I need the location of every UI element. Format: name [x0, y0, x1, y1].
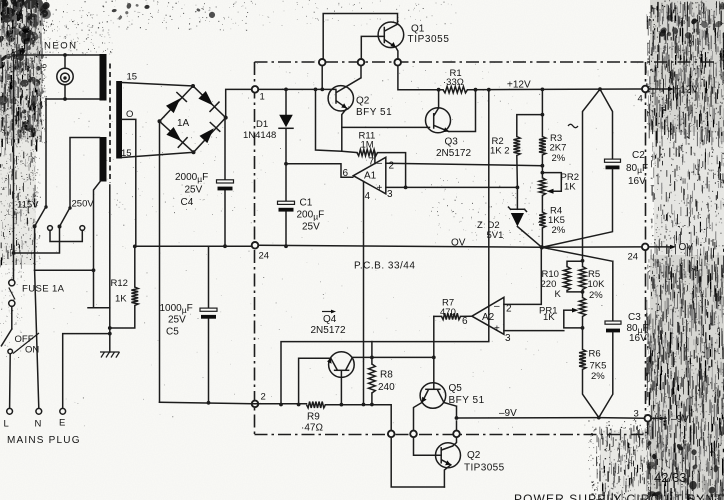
capacitor C5 1000uF — [208, 246, 210, 402]
terminal 24 right — [642, 244, 649, 251]
wire selector contacts U link — [50, 230, 82, 241]
label Q4 arrow — [322, 311, 333, 313]
svg-text:E: E — [59, 418, 65, 429]
svg-text:FUSE 1A: FUSE 1A — [22, 284, 65, 295]
wire bridge positive output — [226, 89, 252, 117]
svg-text:115V: 115V — [17, 200, 39, 211]
svg-text:Q2: Q2 — [467, 450, 481, 461]
svg-text:C4: C4 — [181, 197, 194, 208]
bridge diode top-left — [166, 98, 180, 113]
terminal 1 — [252, 86, 259, 93]
svg-text:R9: R9 — [307, 412, 320, 423]
wire A1 output to C1 node — [286, 164, 353, 178]
svg-text:Q5: Q5 — [449, 383, 463, 394]
switch slash stroke — [13, 333, 39, 354]
transistor Q3 2N5172 — [426, 108, 451, 133]
svg-text:Q3: Q3 — [445, 137, 459, 148]
unregulated bus from terminal 1 — [258, 88, 335, 90]
svg-text:1000µF: 1000µF — [160, 303, 193, 315]
wire collector pin stub — [456, 421, 458, 431]
svg-text:240: 240 — [378, 382, 395, 393]
wire negative rail to terminal 2 — [160, 402, 253, 404]
capacitor C1 200uF — [285, 164, 287, 246]
scan noise right band — [588, 0, 724, 500]
wire R6 bottom funnel — [583, 369, 599, 417]
wire neon top — [64, 55, 66, 68]
svg-text:2%: 2% — [552, 153, 566, 164]
op-amp A1 — [353, 157, 386, 194]
wire R4 bottom to 0V junction — [541, 228, 543, 247]
wire neon bottom — [64, 85, 66, 99]
resistor R2 1K2 — [513, 137, 520, 156]
svg-text:7: 7 — [369, 157, 375, 168]
svg-text:O: O — [126, 109, 133, 120]
svg-text:–9V: –9V — [671, 414, 689, 425]
svg-text:1: 1 — [260, 92, 265, 103]
svg-text:TIP3055: TIP3055 — [464, 463, 505, 474]
resistor R8 240 — [371, 342, 373, 364]
resistor R7 470 — [442, 313, 461, 319]
svg-text:–: – — [494, 301, 500, 312]
svg-text:BFY 51: BFY 51 — [356, 107, 392, 118]
svg-text:1A: 1A — [177, 118, 190, 129]
svg-text:K: K — [555, 289, 562, 300]
terminal Q2b collector pin — [453, 431, 460, 438]
wire A1 pin2 to R2 bottom — [386, 163, 543, 166]
terminal 2 — [252, 401, 259, 408]
svg-text:24: 24 — [259, 251, 270, 262]
svg-text:R12: R12 — [111, 278, 128, 289]
wire fuse to on-off switch — [11, 306, 13, 329]
squiggle artifact — [568, 124, 578, 128]
svg-text:1K: 1K — [564, 182, 576, 193]
transformer primary bottom to junction — [94, 181, 101, 270]
wire A1 pin7 stub — [374, 153, 376, 164]
svg-text:10K: 10K — [588, 279, 606, 290]
terminal Q2b emitter pin — [388, 431, 395, 438]
wire 115V contact to N junction — [34, 226, 36, 270]
svg-text:C5: C5 — [166, 327, 179, 338]
svg-text:24: 24 — [628, 252, 639, 263]
svg-text:15: 15 — [127, 72, 138, 83]
svg-text:4: 4 — [365, 191, 371, 202]
wire Q1 emitter to R1 — [398, 66, 443, 90]
terminal 3 — [645, 415, 652, 422]
svg-text:OV: OV — [451, 238, 466, 249]
terminal Q1 base pin — [358, 59, 365, 66]
terminal N — [36, 408, 42, 414]
svg-text:2%: 2% — [552, 225, 566, 236]
svg-text:+12V: +12V — [507, 80, 531, 91]
svg-text:16V: 16V — [629, 333, 647, 344]
switch OFF/ON — [1, 329, 11, 346]
svg-text:–: – — [377, 158, 383, 169]
diode D1 1N4148 — [285, 89, 287, 163]
preset PR2 1K — [539, 178, 545, 196]
capacitor C4 2000uF — [224, 118, 226, 247]
svg-text:NEON: NEON — [44, 41, 77, 52]
svg-text:25V: 25V — [185, 185, 203, 196]
wire 250V contact to L line — [14, 227, 60, 254]
resistor R12 1K — [131, 287, 138, 306]
-9V rail — [457, 417, 645, 420]
svg-text:2000µF: 2000µF — [175, 172, 208, 184]
0V rail — [136, 245, 642, 247]
svg-text:L: L — [4, 419, 9, 430]
wire L line left vertical — [13, 55, 15, 280]
svg-text:6: 6 — [343, 168, 349, 179]
wire A2 pin2 to 0V junction — [504, 249, 541, 305]
terminal Q1 emitter pin — [394, 59, 401, 66]
svg-text:+12V: +12V — [675, 85, 699, 96]
wire R7/Q5 base vertical — [433, 316, 435, 389]
svg-text:BFY 51: BFY 51 — [449, 395, 485, 406]
svg-text:1N4148: 1N4148 — [243, 130, 276, 141]
capacitor C3 80uF — [542, 247, 613, 320]
transistor Q2 BFY51 — [328, 86, 353, 111]
PCB boundary chain line left — [254, 62, 256, 435]
resistor R9 .47 ohm — [307, 402, 326, 408]
wire secondary top tap to bridge — [122, 83, 193, 87]
svg-text:Q2: Q2 — [356, 96, 370, 107]
wire N down to plug — [35, 270, 39, 408]
wire N junction horizontal — [35, 269, 94, 271]
scan noise left band — [0, 0, 456, 359]
svg-text:1M: 1M — [361, 140, 374, 151]
wire bus tap down to R11 — [316, 89, 358, 152]
neon lamp — [57, 68, 73, 84]
switch arm 250V — [60, 208, 71, 227]
svg-text:C3: C3 — [628, 312, 641, 323]
transformer core earth wire — [109, 185, 111, 352]
wire primary junction down/right — [88, 270, 110, 307]
wire +12V down feed to lower section — [583, 89, 601, 261]
bridge rectifier 1A diamond — [160, 86, 226, 152]
svg-text:+: + — [377, 183, 383, 194]
svg-text:MAINS PLUG: MAINS PLUG — [7, 435, 81, 446]
resistor R6 7K5 — [579, 349, 586, 369]
wire terminal to bus — [321, 66, 323, 90]
terminal 24 left — [252, 242, 259, 249]
transformer T1 primary winding lower bar — [100, 137, 107, 182]
capacitor C2 80uF — [605, 159, 621, 162]
svg-text:2: 2 — [261, 392, 266, 403]
wire +12V long feed through A2 — [281, 90, 489, 405]
svg-text:POWER SUPPLY CIRCUIT SYNTHI A: POWER SUPPLY CIRCUIT SYNTHI A — [514, 492, 724, 500]
resistor R4 1K5 — [541, 196, 543, 213]
OV output arrow — [649, 246, 673, 248]
svg-text:·47Ω: ·47Ω — [301, 423, 323, 434]
wire R3 bottom node — [541, 155, 543, 178]
wire A1 pin4 down to negative rail — [363, 182, 365, 405]
wire secondary bottom tap to bridge — [122, 152, 194, 157]
terminal L — [7, 408, 13, 414]
svg-text:25V: 25V — [168, 315, 186, 326]
svg-text:Q1: Q1 — [411, 24, 425, 35]
svg-text:C2: C2 — [632, 150, 645, 161]
svg-text:1K 2: 1K 2 — [490, 146, 510, 157]
svg-text:7K5: 7K5 — [590, 361, 607, 372]
PR1 wiper — [564, 309, 572, 311]
wire Q2 emitter down to R11 — [341, 127, 343, 151]
wire +12V funnel to C2 — [598, 87, 602, 91]
svg-text:2K7: 2K7 — [550, 143, 567, 154]
svg-text:6: 6 — [39, 64, 49, 69]
svg-text:1K: 1K — [115, 294, 127, 305]
terminal 4 — [642, 86, 649, 93]
svg-text:Z: Z — [477, 220, 483, 231]
svg-text:200µF: 200µF — [297, 210, 325, 222]
svg-text:A1: A1 — [364, 171, 377, 182]
svg-text:2%: 2% — [591, 371, 605, 382]
resistor R11 1M — [357, 149, 378, 155]
svg-text:OV: OV — [679, 242, 694, 253]
svg-text:4: 4 — [638, 94, 643, 105]
transistor Q4 2N5172 — [329, 352, 355, 378]
resistor R1 .33 ohm — [443, 87, 468, 93]
PCB boundary chain line bottom — [255, 434, 648, 436]
wire A2 pin3 to PR1 wiper — [504, 330, 564, 332]
wire R3 top feed — [541, 89, 543, 136]
wire mains box bottom — [46, 98, 100, 100]
preset PR1 1K — [579, 298, 585, 317]
wire R11 right to pin3 — [378, 153, 406, 188]
svg-text:250V: 250V — [72, 199, 95, 210]
wire R2 bottom to zener — [516, 156, 519, 188]
svg-text:TIP3055: TIP3055 — [408, 34, 450, 45]
switch arm 115V — [35, 207, 46, 227]
wire PR1 bottom junction — [582, 317, 584, 350]
svg-text:·33Ω: ·33Ω — [443, 77, 464, 88]
svg-text:–9V: –9V — [499, 408, 517, 419]
wire R2 top bracket — [517, 115, 543, 137]
svg-text:D1: D1 — [256, 119, 268, 130]
svg-text:R8: R8 — [380, 370, 393, 381]
svg-text:N: N — [35, 419, 42, 430]
wire switch to L terminal — [9, 354, 12, 409]
terminal Q2b base pin — [410, 431, 417, 438]
svg-text:25V: 25V — [302, 222, 320, 233]
negative rail with R9 — [252, 404, 391, 431]
transformer T1 primary winding upper bar — [100, 54, 107, 101]
transistor Q2 TIP3055 lower — [436, 443, 461, 468]
svg-text:2N5172: 2N5172 — [311, 325, 346, 336]
terminal Q1 collector pin — [319, 59, 326, 66]
wire A1 pin3 to zener — [386, 186, 518, 188]
resistor R5 10K — [582, 261, 584, 267]
svg-text:2: 2 — [389, 161, 395, 172]
transformer T1 secondary winding bar — [116, 81, 122, 159]
PR2 wiper — [542, 173, 561, 192]
transistor Q5 BFY51 — [420, 383, 446, 409]
resistor R10 220K bracket — [567, 261, 583, 292]
general speckle — [53, 60, 638, 429]
svg-text:Q4: Q4 — [323, 314, 337, 325]
wire bridge negative output down — [159, 121, 161, 402]
transformer core dashed line — [109, 64, 111, 184]
resistor R3 2K7 — [539, 137, 546, 156]
+12V rail — [468, 88, 642, 91]
wire E to ground node — [63, 334, 110, 409]
svg-text:42/33: 42/33 — [654, 470, 687, 485]
selector contact circles — [48, 226, 53, 231]
svg-text:1K: 1K — [543, 312, 555, 323]
op-amp A2 — [472, 297, 504, 334]
PCB boundary chain line top — [255, 61, 715, 63]
terminal E — [60, 408, 66, 414]
ground symbol — [100, 352, 120, 358]
bridge diode bottom-right — [200, 128, 214, 143]
svg-text:C1: C1 — [300, 198, 313, 209]
svg-text:16V: 16V — [628, 176, 646, 187]
svg-text:3: 3 — [387, 189, 393, 200]
-9V output arrow — [651, 417, 666, 419]
svg-text:A2: A2 — [482, 312, 495, 323]
wire centre tap to 0V rail — [122, 119, 136, 246]
wire to 115V switch — [45, 99, 47, 207]
+12V output arrow — [649, 88, 670, 90]
svg-text:ON: ON — [25, 345, 39, 356]
zener diode D2 5V1 — [516, 187, 518, 209]
svg-text:470: 470 — [440, 307, 456, 318]
svg-text:+: + — [494, 324, 500, 335]
wire 250V tap — [70, 138, 100, 208]
svg-text:80µF: 80µF — [626, 163, 648, 175]
transistor Q1 TIP3055 — [378, 22, 404, 48]
bridge diode top-right — [198, 91, 213, 106]
svg-text:2%: 2% — [589, 290, 603, 301]
wire mains box top — [14, 54, 102, 56]
svg-text:2N5172: 2N5172 — [436, 148, 471, 159]
wire Q2 emitter to Q3 base — [342, 126, 430, 128]
svg-text:3: 3 — [634, 409, 639, 420]
bridge diode bottom-left — [166, 127, 181, 141]
svg-text:3: 3 — [505, 333, 511, 344]
fuse FS1 1A — [9, 280, 15, 286]
PCB boundary chain line right — [645, 62, 647, 415]
svg-text:6: 6 — [462, 316, 468, 327]
svg-text:R6: R6 — [589, 349, 601, 360]
